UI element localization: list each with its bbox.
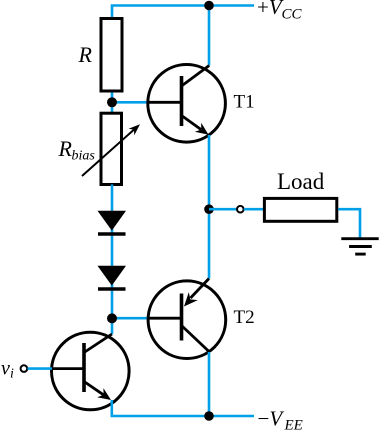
- potentiometer Rbias: [101, 113, 122, 184]
- transistor Q driver: [52, 332, 130, 410]
- transistor T2: [148, 279, 226, 359]
- wire top rail to +VCC: [112, 6, 254, 19]
- svg-text:+V: +V: [257, 0, 284, 19]
- diode D1: [98, 211, 127, 234]
- load box: [264, 198, 336, 221]
- wire Rbias through diodes to node B: [111, 185, 114, 335]
- svg-text:T2: T2: [234, 307, 255, 328]
- ground: [341, 239, 378, 254]
- wire Q emitter to bottom rail and -VEE rail: [112, 400, 254, 416]
- wire R bottom to Rbias top: [111, 93, 114, 113]
- wire T2 collector to -VEE rail: [208, 352, 211, 416]
- wire load to ground: [338, 209, 360, 238]
- svg-text:Load: Load: [277, 169, 325, 194]
- svg-text:CC: CC: [282, 7, 303, 23]
- Rbias arrow: [82, 124, 140, 176]
- svg-text:T1: T1: [234, 92, 255, 113]
- svg-text:v: v: [1, 358, 10, 380]
- wire node B to T2 base: [112, 317, 149, 320]
- svg-text:R: R: [78, 42, 93, 67]
- node output: [204, 204, 214, 214]
- terminal vi open circle: [21, 365, 28, 372]
- diode D2: [98, 266, 127, 289]
- svg-text:EE: EE: [284, 418, 303, 431]
- svg-text:−V: −V: [258, 407, 285, 431]
- wire T1 emitter to T2 emitter (output column): [208, 135, 211, 279]
- node bottom junction: [204, 411, 214, 421]
- terminal open circle: [237, 206, 244, 213]
- svg-text:i: i: [10, 367, 14, 382]
- resistor R: [101, 19, 122, 92]
- node top junction: [204, 1, 214, 11]
- transistor T1: [148, 65, 226, 143]
- wire vi to Q base: [28, 367, 53, 370]
- wire node A to T1 base: [112, 101, 149, 104]
- svg-text:R: R: [58, 136, 73, 161]
- svg-text:bias: bias: [72, 149, 96, 164]
- wire T1 collector drop from rail: [208, 6, 211, 66]
- node A: [107, 97, 117, 107]
- node B: [107, 313, 117, 323]
- wire output node to terminal: [209, 208, 237, 211]
- wire terminal to load: [244, 208, 264, 211]
